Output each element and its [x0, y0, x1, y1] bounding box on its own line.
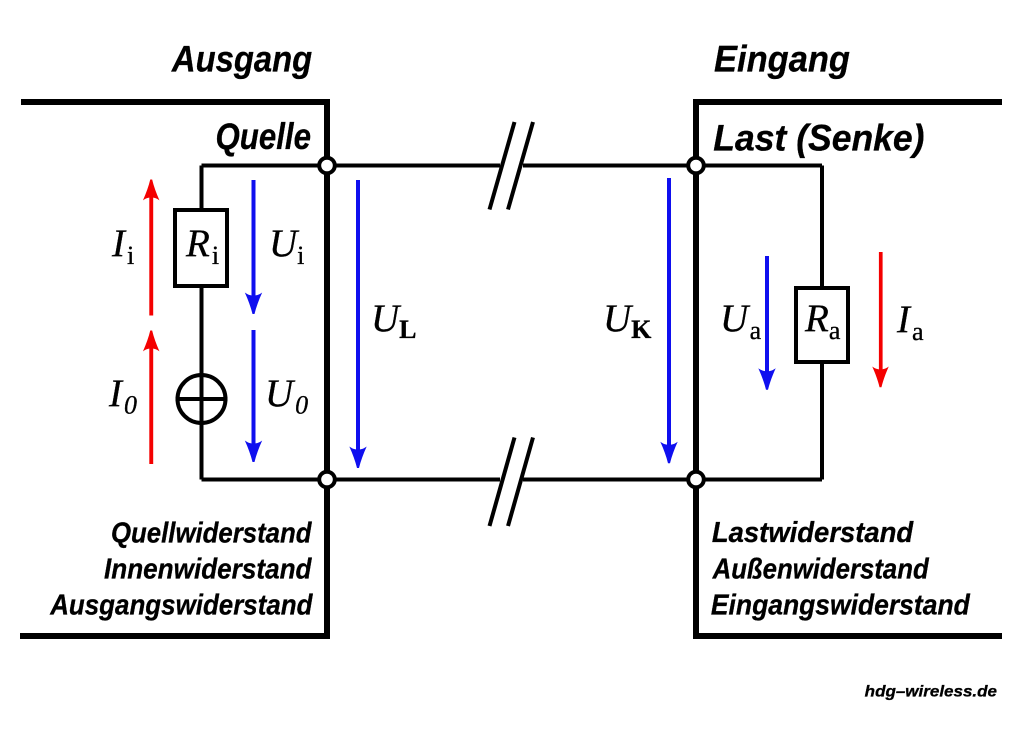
voltage arrow U0 (blue, down) [245, 330, 262, 462]
wire right branch top [696, 164, 822, 168]
wire top segment (right of break) [523, 164, 696, 168]
left frame bottom line [20, 633, 330, 639]
voltage arrow UK (blue, down) [660, 178, 677, 463]
svg-text:Ausgang: Ausgang [171, 39, 312, 80]
right frame bottom line [693, 633, 1002, 639]
break symbol top [490, 122, 534, 210]
wire bottom segment (right of break) [523, 478, 696, 482]
wire left branch bottom [202, 478, 328, 482]
svg-text:Eingang: Eingang [714, 39, 850, 80]
voltage arrow Ua (blue, down) [758, 256, 775, 390]
wire left branch vertical [200, 166, 204, 480]
node C (load input, top) [688, 158, 704, 174]
node D (load input, bottom) [688, 472, 704, 488]
svg-text:Quelle: Quelle [216, 116, 312, 157]
voltage source U0 cross bar [176, 397, 228, 401]
current arrow Ia (red, down) [872, 252, 889, 387]
svg-text:Ausgangswiderstand: Ausgangswiderstand [49, 590, 313, 622]
svg-text:Last (Senke): Last (Senke) [713, 118, 924, 159]
wire left branch top [202, 164, 328, 168]
wire top segment (left of break) [327, 164, 500, 168]
voltage arrow UL (blue, down) [349, 180, 366, 468]
wire bottom segment (left of break) [327, 478, 500, 482]
left frame vertical [324, 99, 330, 639]
svg-text:Außenwiderstand: Außenwiderstand [712, 554, 930, 586]
current arrow I0 (red, up) [143, 331, 160, 465]
wire right branch bottom [696, 478, 822, 482]
voltage source U0 circle [178, 375, 226, 423]
current arrow Ii (red, up) [143, 180, 160, 316]
right frame top line [693, 99, 1002, 105]
svg-text:Quellwiderstand: Quellwiderstand [111, 518, 313, 550]
node A (source output, top) [319, 158, 335, 174]
node B (source output, bottom) [319, 472, 335, 488]
left frame top line [21, 99, 330, 105]
right frame vertical [693, 99, 699, 639]
resistor Ri box [175, 210, 227, 286]
wire right branch vertical [820, 166, 824, 480]
svg-text:Innenwiderstand: Innenwiderstand [104, 554, 313, 586]
break symbol bottom [490, 438, 534, 527]
svg-text:Lastwiderstand: Lastwiderstand [712, 517, 915, 549]
svg-text:Eingangswiderstand: Eingangswiderstand [711, 590, 971, 622]
voltage arrow Ui (blue, down) [245, 180, 262, 314]
svg-text:hdg–wireless.de: hdg–wireless.de [865, 684, 998, 701]
resistor Ra box [796, 288, 848, 362]
